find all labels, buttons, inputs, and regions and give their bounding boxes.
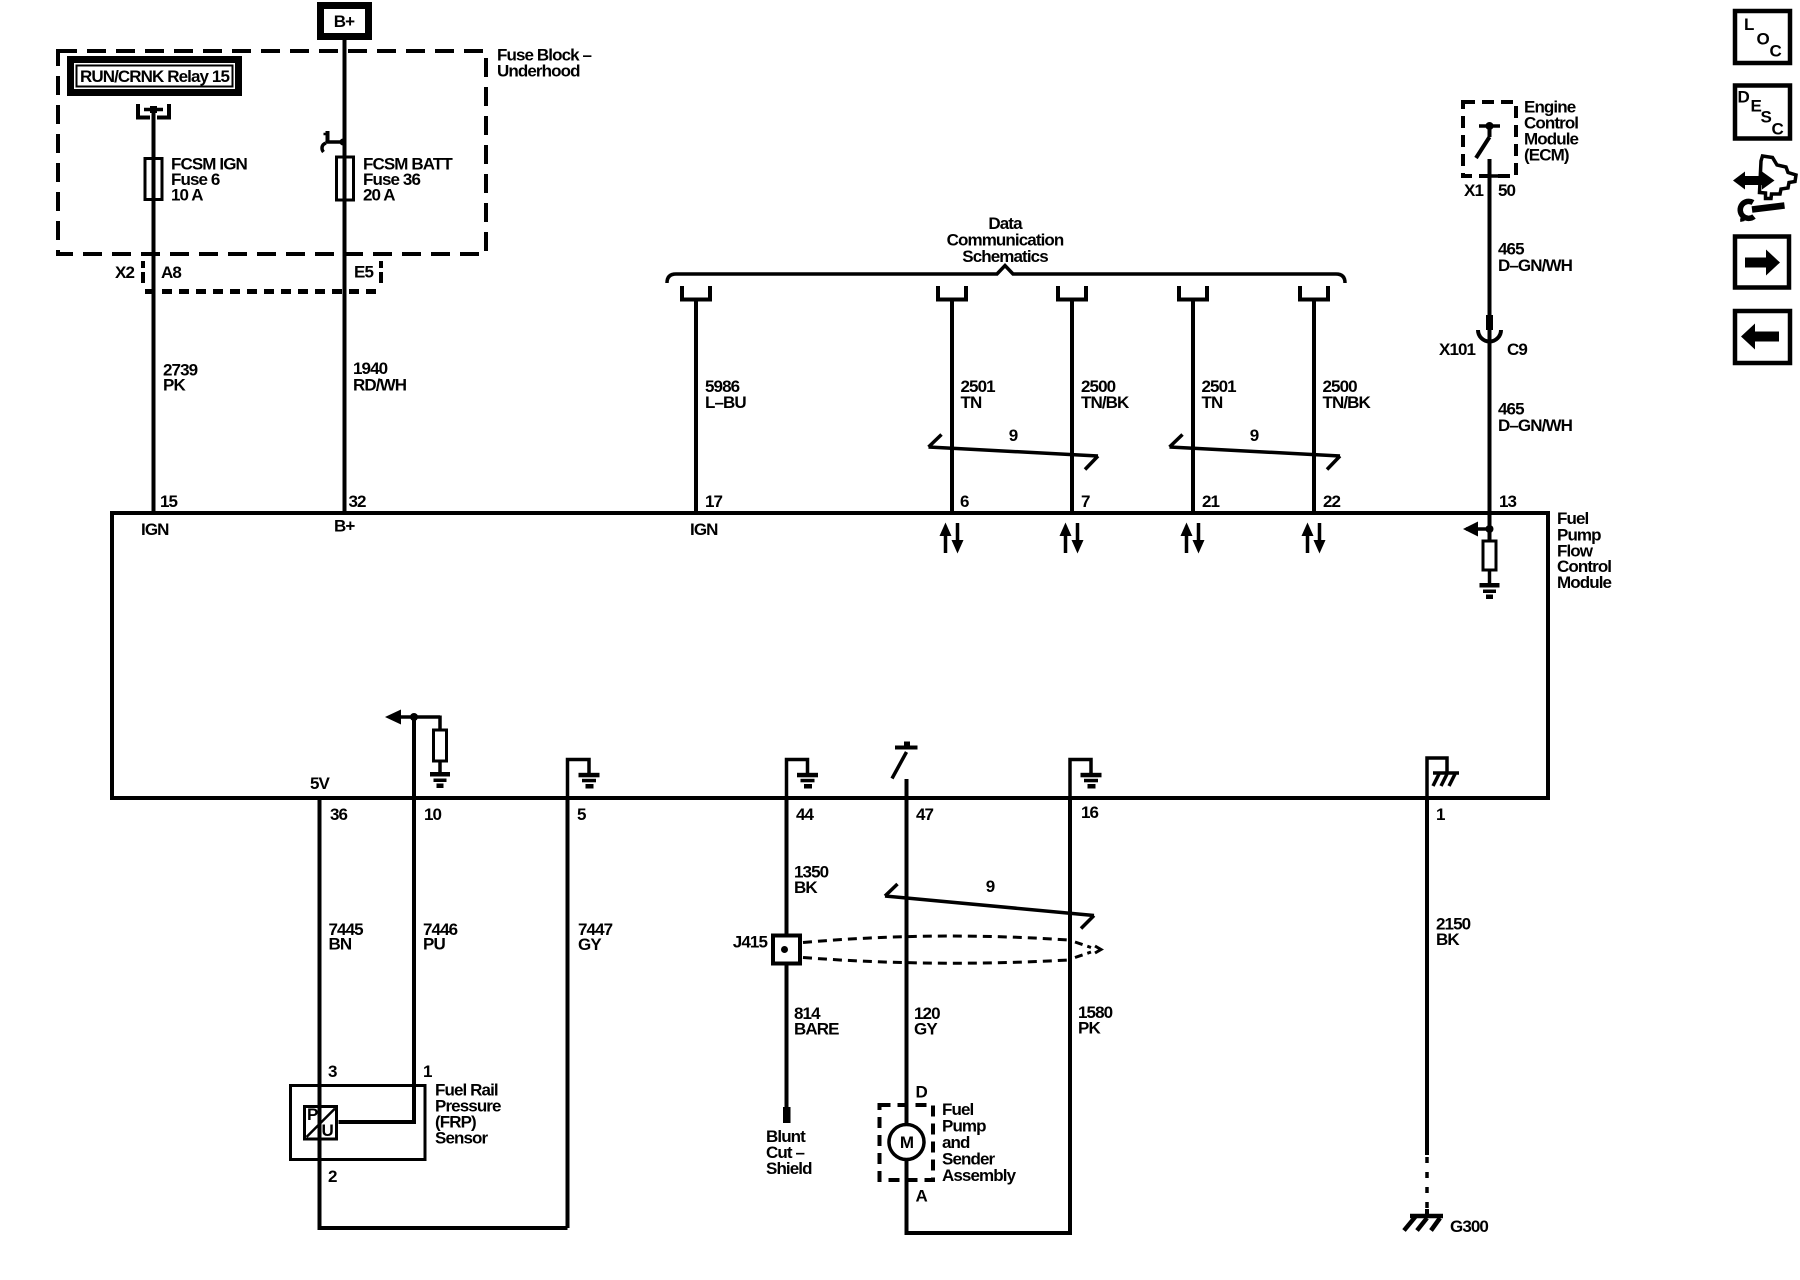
svg-text:Shield: Shield (766, 1159, 812, 1178)
relay contact terminal symbol (138, 104, 169, 118)
svg-text:BARE: BARE (794, 1020, 839, 1039)
twisted pair marker 9 (wires 21 and 22) (1170, 426, 1341, 470)
wire label 465 D-GN/WH (upper) (1498, 239, 1573, 275)
FRP sensor P/U transducer square (305, 1105, 337, 1140)
label Blunt Cut - Shield (766, 1127, 812, 1178)
wire label 2500 TN/BK (1081, 377, 1130, 412)
bidirectional arrows pin 7 (1060, 523, 1084, 554)
fuel pump pin labels D A (916, 1082, 928, 1205)
svg-text:TN: TN (961, 393, 982, 412)
svg-text:5: 5 (577, 805, 586, 824)
connector cup wire 22 (1300, 286, 1328, 300)
svg-text:M: M (900, 1133, 914, 1152)
svg-text:GY: GY (914, 1020, 938, 1039)
svg-text:B+: B+ (334, 12, 355, 31)
svg-text:A8: A8 (161, 263, 181, 282)
connector terminal E5 label (354, 261, 383, 283)
bidirectional arrows pin 22 (1302, 523, 1326, 554)
wire: connector to module pin 22 (1312, 301, 1316, 513)
wire: connector to module pin 6 (950, 301, 954, 513)
wire label 2150 BK (1436, 914, 1471, 949)
pin 13 internal arrow resistor and ground (1463, 515, 1500, 599)
B+ power terminal box (321, 6, 369, 37)
svg-text:PU: PU (423, 935, 445, 954)
pin 1 internal chassis ground (1427, 758, 1459, 799)
svg-text:C9: C9 (1507, 340, 1527, 359)
svg-text:1: 1 (1436, 805, 1445, 824)
forward navigation arrow box (1735, 237, 1789, 288)
svg-text:D–GN/WH: D–GN/WH (1498, 416, 1573, 435)
connector cup wire 7 (1058, 286, 1086, 300)
pin 16 internal ground (1070, 760, 1102, 800)
brace over data communication wires (667, 266, 1345, 284)
svg-text:D: D (1738, 88, 1750, 107)
wire label 814 BARE (794, 1004, 839, 1039)
bidirectional arrows pin 21 (1181, 523, 1205, 554)
label Fuse Block - Underhood (497, 46, 592, 81)
svg-text:D: D (916, 1082, 928, 1101)
label FCSM BATT Fuse 36 20 A (363, 155, 453, 205)
svg-text:15: 15 (160, 492, 178, 511)
svg-text:RD/WH: RD/WH (353, 376, 407, 395)
svg-text:Assembly: Assembly (942, 1166, 1017, 1185)
fuel pump motor M (889, 1125, 924, 1160)
label Fuel Rail Pressure (FRP) Sensor (435, 1080, 501, 1147)
fuel pump flow control module box (112, 513, 1548, 798)
svg-text:13: 13 (1499, 492, 1517, 511)
connector boundary dashed line (145, 289, 379, 294)
svg-text:GY: GY (578, 935, 602, 954)
wire label 465 D-GN/WH (lower) (1498, 399, 1573, 435)
svg-text:E5: E5 (354, 263, 373, 282)
svg-text:17: 17 (705, 492, 723, 511)
svg-text:50: 50 (1498, 181, 1516, 200)
connector cup wire 6 (938, 286, 966, 300)
svg-text:TN/BK: TN/BK (1081, 393, 1130, 412)
fuse FCSM IGN Fuse 6 (145, 159, 162, 200)
svg-text:44: 44 (796, 805, 815, 824)
wire label 5986 L-BU (705, 377, 746, 412)
svg-text:X1: X1 (1464, 181, 1483, 200)
ground G300 (1404, 1209, 1488, 1236)
svg-text:32: 32 (349, 492, 367, 511)
svg-text:X2: X2 (115, 263, 134, 282)
svg-text:BK: BK (794, 878, 818, 897)
svg-text:RUN/CRNK Relay 15: RUN/CRNK Relay 15 (80, 67, 230, 86)
wire: connector to module pin 21 (1191, 301, 1195, 513)
svg-text:10: 10 (424, 805, 442, 824)
svg-text:10 A: 10 A (171, 186, 203, 205)
wire: bottom junction to module pin 5 (566, 799, 570, 1228)
svg-text:6: 6 (960, 492, 969, 511)
wire: module pin 47 to fuel pump pin D (905, 799, 909, 1125)
wire label 120 GY (914, 1004, 940, 1039)
connector X2 terminal A8 labels (115, 261, 181, 283)
svg-text:16: 16 (1081, 803, 1099, 822)
wire: module pin 1 to G300 (1425, 799, 1429, 1155)
wire label 2501 TN (961, 377, 996, 412)
module pin names IGN B+ IGN (141, 517, 718, 540)
engine control module dashed box (1463, 102, 1516, 176)
RUN/CRNK Relay 15 box (71, 60, 239, 93)
svg-text:O: O (1757, 30, 1770, 49)
svg-text:B+: B+ (334, 517, 355, 536)
svg-text:TN/BK: TN/BK (1323, 393, 1372, 412)
wire: fuel pump pin A to bottom junction to module pin 16 (907, 799, 1071, 1233)
fuel pump and sender assembly dashed box (880, 1105, 934, 1180)
connector cup wire 17 (682, 286, 710, 300)
svg-text:X101: X101 (1439, 340, 1476, 359)
wire label 1580 PK (1078, 1003, 1113, 1038)
svg-text:IGN: IGN (141, 520, 169, 539)
wire label 1940 RD/WH (353, 359, 407, 394)
wire label 2739 PK (163, 361, 198, 395)
svg-text:C: C (1772, 119, 1784, 138)
LOC navigation box (1735, 11, 1790, 63)
wire: connector to module pin 7 (1070, 301, 1074, 513)
svg-text:(ECM): (ECM) (1524, 146, 1569, 165)
svg-text:L: L (1744, 15, 1754, 34)
pin 5 internal ground (568, 760, 600, 800)
wire: module pin 36 to FRP sensor pin 3 (318, 799, 322, 1141)
back navigation arrow box (1735, 311, 1790, 363)
svg-text:20 A: 20 A (363, 186, 395, 205)
svg-text:22: 22 (1323, 492, 1341, 511)
pin labels below module (330, 803, 1445, 824)
svg-text:1: 1 (423, 1062, 432, 1081)
pin 10 internal arrow resistor and ground (385, 710, 450, 800)
diagnostic tools icon (1733, 156, 1796, 222)
label Engine Control Module (ECM) (1524, 98, 1579, 165)
svg-text:U: U (322, 1121, 334, 1140)
fuse FCSM BATT Fuse 36 (337, 157, 354, 200)
DESC navigation box (1735, 86, 1790, 139)
svg-text:D–GN/WH: D–GN/WH (1498, 256, 1573, 275)
wire label 1350 BK (794, 863, 829, 898)
svg-text:9: 9 (1250, 426, 1259, 445)
FRP sensor pin labels 3 1 2 (328, 1062, 432, 1186)
splice J415 (733, 933, 800, 964)
label Fuel Pump Flow Control Module (1557, 509, 1612, 592)
wire: B+ through FCSM BATT fuse to module pin 32 (343, 40, 347, 513)
connector cup wire 21 (1179, 286, 1207, 300)
svg-text:Underhood: Underhood (497, 62, 580, 81)
fuel rail pressure sensor box (291, 1086, 426, 1160)
bidirectional arrows pin 6 (940, 523, 964, 554)
fuse block underhood dashed box (58, 51, 486, 254)
wire label 7446 PU (423, 920, 458, 954)
wire: FRP sensor pin 2 to bottom junction (320, 1141, 568, 1228)
wire label 7447 GY (578, 920, 613, 954)
svg-text:TN: TN (1202, 393, 1223, 412)
battery feed hook symbol (322, 131, 346, 152)
shield dashed ellipse (803, 936, 1101, 963)
svg-text:Sensor: Sensor (435, 1128, 489, 1147)
pin labels above module (160, 492, 1517, 511)
twisted pair marker 9 (wires 6 and 7) (929, 426, 1099, 470)
label FCSM IGN Fuse 6 10 A (171, 155, 248, 205)
twisted pair marker 9 (pins 47 and 16) (885, 877, 1094, 929)
label Fuel Pump and Sender Assembly (942, 1100, 1017, 1185)
wire: relay through FCSM IGN fuse to module pin 15 (152, 110, 156, 513)
inline connector X101 C9 (1439, 315, 1527, 359)
svg-text:J415: J415 (733, 933, 768, 952)
labels X1 50 (1464, 181, 1516, 200)
wire label 2501 TN (1202, 377, 1237, 412)
wire label 2500 TN/BK (1323, 377, 1372, 412)
svg-text:PK: PK (163, 376, 186, 395)
wire: ECM pin 50 to module pin 13 (1488, 159, 1492, 513)
svg-text:Schematics: Schematics (962, 247, 1048, 266)
svg-text:G300: G300 (1450, 1217, 1488, 1236)
svg-text:A: A (916, 1186, 928, 1205)
svg-text:5V: 5V (310, 774, 331, 793)
svg-text:S: S (1761, 108, 1772, 127)
pin 47 internal switch (892, 742, 918, 800)
svg-text:36: 36 (330, 805, 348, 824)
svg-text:21: 21 (1202, 492, 1220, 511)
svg-text:BN: BN (329, 935, 352, 954)
wire label 7445 BN (329, 920, 364, 954)
svg-text:C: C (1770, 42, 1782, 61)
wire: module pin 44 shield drain (785, 799, 789, 935)
svg-text:BK: BK (1436, 930, 1460, 949)
ECM connector crossing tick (1481, 174, 1498, 178)
svg-text:9: 9 (986, 877, 995, 896)
svg-text:47: 47 (916, 805, 934, 824)
svg-text:3: 3 (328, 1062, 337, 1081)
wire: connector to module pin 17 (694, 301, 698, 513)
ECM driver switch symbol (1476, 122, 1500, 158)
svg-text:PK: PK (1078, 1019, 1101, 1038)
svg-text:7: 7 (1081, 492, 1090, 511)
svg-text:IGN: IGN (690, 520, 718, 539)
svg-text:2: 2 (328, 1167, 337, 1186)
svg-text:P: P (307, 1105, 318, 1124)
wire: module pin 10 to FRP sensor pin 1 (339, 799, 415, 1122)
svg-text:L–BU: L–BU (705, 393, 746, 412)
svg-text:9: 9 (1009, 426, 1018, 445)
blunt cut shield end (783, 1107, 791, 1123)
svg-text:Module: Module (1557, 573, 1612, 592)
label Data Communication Schematics (947, 214, 1064, 266)
pin 44 internal ground (787, 760, 819, 800)
